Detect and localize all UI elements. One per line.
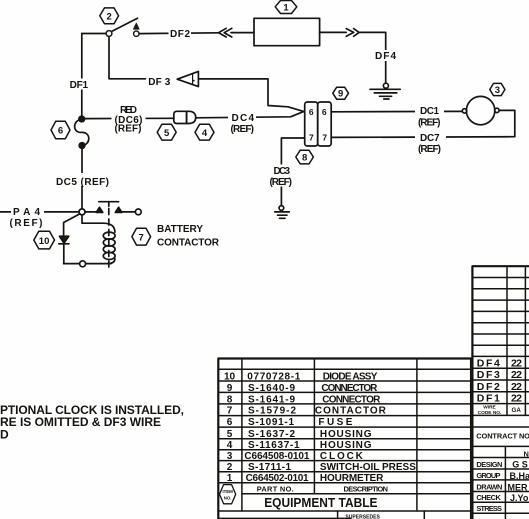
- item hexagon 6: [51, 121, 70, 139]
- item hexagon 10: [34, 231, 55, 249]
- svg-text:DF2: DF2: [170, 29, 190, 40]
- svg-text:7: 7: [139, 232, 144, 243]
- svg-text:10: 10: [224, 372, 236, 383]
- svg-text:DF2: DF2: [477, 381, 500, 393]
- ground under DC3: [279, 206, 284, 211]
- wire chevron to clock box: [231, 32, 254, 34]
- equipment table row lines: [218, 368, 470, 370]
- svg-text:DF3: DF3: [477, 369, 500, 381]
- wire code table columns: [507, 266, 525, 415]
- svg-text:7: 7: [227, 406, 233, 417]
- svg-text:S-1637-2: S-1637-2: [248, 429, 295, 440]
- svg-text:3: 3: [227, 451, 233, 462]
- wire DC3 from pin 7 to ground: [281, 138, 304, 206]
- svg-text:GA: GA: [512, 407, 522, 414]
- svg-text:CONNECTOR: CONNECTOR: [321, 383, 378, 394]
- coil branch wire from junction: [82, 215, 115, 232]
- svg-text:D: D: [0, 427, 9, 441]
- wire RED/DC6 from fuse to holder: [84, 117, 174, 119]
- svg-text:RE IS OMITTED & DF3 WIRE: RE IS OMITTED & DF3 WIRE: [0, 415, 161, 429]
- svg-text:DC5 (REF): DC5 (REF): [56, 177, 109, 188]
- equipment table column lines: [241, 359, 243, 512]
- svg-text:NO.: NO.: [224, 495, 232, 500]
- svg-text:7: 7: [309, 132, 314, 142]
- svg-text:7: 7: [322, 132, 327, 142]
- svg-text:DF1: DF1: [477, 392, 500, 404]
- armature dashed linkage: [108, 209, 110, 271]
- chevron arrow out of clock (double, pointing right): [346, 29, 353, 37]
- svg-text:WIRE: WIRE: [483, 405, 496, 411]
- diode branch diagonal (item 10): [64, 214, 80, 236]
- junction node (open): [79, 209, 85, 215]
- bottom return wire: [64, 263, 111, 265]
- contactor coil loops: [103, 232, 115, 239]
- svg-text:NA: NA: [524, 449, 529, 458]
- item hexagon 4: [195, 124, 214, 140]
- item hexagon 7: [132, 228, 151, 245]
- wire DC4 to connector pin 6: [196, 112, 304, 118]
- fuse holder (items 5,4): [174, 111, 187, 123]
- svg-text:CLOCK: CLOCK: [320, 451, 364, 462]
- svg-text:4: 4: [227, 440, 233, 451]
- switch S (item 2) pivot-to-corner wire: [82, 33, 107, 35]
- diode to bottom wire: [63, 244, 65, 264]
- fuse F (item 6) with junction dots: [79, 116, 85, 122]
- svg-text:ITEM: ITEM: [222, 489, 233, 494]
- title block rows: [472, 426, 529, 428]
- svg-text:C664508-0101: C664508-0101: [244, 451, 309, 462]
- svg-text:S-1640-9: S-1640-9: [248, 383, 295, 394]
- motor M (item 3): [466, 96, 494, 124]
- svg-text:6: 6: [58, 126, 63, 137]
- svg-text:DC3: DC3: [274, 166, 291, 177]
- supersedes strip verticals: [338, 511, 425, 519]
- wire DC1 from connector to motor: [331, 110, 462, 112]
- svg-text:2: 2: [227, 462, 233, 473]
- contactor contact triangles: [96, 207, 103, 212]
- triangle arrow inner dot: [193, 80, 195, 82]
- svg-text:SWITCH-OIL PRESS: SWITCH-OIL PRESS: [320, 462, 416, 473]
- svg-text:DESCRIPTION: DESCRIPTION: [344, 484, 389, 493]
- svg-text:22: 22: [511, 357, 522, 369]
- ground under DF4: [383, 83, 388, 88]
- svg-text:C664502-0101: C664502-0101: [246, 473, 309, 484]
- wire DC7 from connector to motor right side: [331, 110, 515, 137]
- svg-text:6: 6: [309, 107, 314, 117]
- bottom node (open): [80, 261, 86, 267]
- wire code table rows: [472, 277, 529, 279]
- svg-text:G S: G S: [512, 460, 528, 470]
- svg-text:HOURMETER: HOURMETER: [320, 473, 384, 484]
- svg-text:5: 5: [164, 128, 170, 139]
- arrow symbol on DF3 wire: [177, 71, 198, 86]
- svg-text:8: 8: [302, 153, 307, 164]
- contactor terminal circle: [135, 209, 141, 215]
- svg-text:S-1579-2: S-1579-2: [248, 406, 296, 417]
- contactor armature T bar: [99, 202, 119, 207]
- svg-text:4: 4: [202, 128, 208, 139]
- coil bottom lead: [108, 259, 115, 264]
- wire PA4 into junction: [0, 211, 79, 213]
- svg-text:PART NO.: PART NO.: [257, 484, 294, 493]
- wire DF1 vertical: [81, 34, 83, 117]
- svg-text:(REF): (REF): [418, 117, 441, 128]
- item hexagon 9: [333, 87, 349, 99]
- item hexagon 8: [296, 150, 314, 164]
- svg-text:STRESS: STRESS: [476, 504, 502, 513]
- svg-text:CONTRACT NO-: CONTRACT NO-: [476, 432, 529, 441]
- svg-text:SUPERSEDES: SUPERSEDES: [345, 515, 380, 519]
- svg-text:DF1: DF1: [70, 80, 89, 91]
- switch contact node: [134, 31, 139, 36]
- svg-text:(REF): (REF): [115, 124, 142, 135]
- svg-text:1: 1: [227, 473, 233, 484]
- svg-text:CHECK: CHECK: [476, 493, 501, 502]
- svg-text:S-1711-1: S-1711-1: [248, 462, 291, 473]
- equipment table item numbers: [224, 372, 236, 484]
- svg-text:5: 5: [227, 429, 233, 440]
- wire DF3 to connector pin 6: [199, 79, 304, 112]
- svg-text:(REF): (REF): [270, 177, 293, 188]
- svg-text:DC4: DC4: [232, 113, 255, 124]
- wire DF2 from contact to chevron: [139, 32, 219, 35]
- title block name column: [504, 446, 506, 519]
- svg-text:DESIGN: DESIGN: [476, 460, 502, 469]
- wire clock box to right chevron: [320, 31, 347, 33]
- svg-text:CODE NO.: CODE NO.: [478, 410, 502, 416]
- contactor fixed contact wires: [85, 211, 135, 213]
- chevron arrow into clock (double, pointing left): [219, 28, 227, 37]
- item hexagon 5: [157, 124, 176, 140]
- svg-text:9: 9: [227, 383, 233, 394]
- svg-text:22: 22: [511, 392, 522, 404]
- svg-text:(REF): (REF): [10, 218, 43, 229]
- svg-text:DC7: DC7: [420, 133, 440, 144]
- svg-text:6: 6: [322, 107, 327, 117]
- svg-text:S-11637-1: S-11637-1: [248, 440, 300, 451]
- svg-text:22: 22: [511, 381, 522, 393]
- item hexagon 2: [100, 8, 119, 24]
- svg-text:3: 3: [495, 85, 500, 96]
- bottom partial row line: [218, 517, 351, 519]
- wire DF3 branch from switch down then right: [109, 36, 146, 78]
- svg-text:(REF): (REF): [231, 124, 255, 135]
- svg-text:B.Ha: B.Ha: [510, 471, 529, 481]
- svg-text:S-1641-9: S-1641-9: [248, 395, 295, 406]
- svg-text:(REF): (REF): [418, 144, 441, 155]
- item no hexagon in equipment table: [220, 485, 236, 504]
- switch blade: [111, 18, 138, 32]
- item hexagon 1: [275, 1, 297, 14]
- svg-text:BATTERY: BATTERY: [157, 224, 203, 235]
- svg-text:HOUSING: HOUSING: [320, 440, 372, 451]
- svg-text:DC1: DC1: [420, 106, 439, 117]
- switch contact arrow: [133, 23, 139, 29]
- svg-text:DF4: DF4: [375, 51, 396, 62]
- wire DF4 to ground: [359, 32, 386, 83]
- svg-text:10: 10: [39, 236, 50, 247]
- svg-text:DF 3: DF 3: [148, 77, 170, 88]
- svg-text:9: 9: [338, 89, 343, 100]
- svg-text:CONTACTOR: CONTACTOR: [315, 406, 387, 417]
- svg-text:GROUP: GROUP: [476, 471, 500, 480]
- svg-text:HOUSING: HOUSING: [320, 429, 372, 440]
- svg-text:1: 1: [283, 3, 289, 14]
- svg-text:8: 8: [227, 395, 233, 406]
- label whiteouts over wires: [169, 28, 192, 39]
- svg-text:0770728-1: 0770728-1: [247, 372, 300, 383]
- svg-text:PA4: PA4: [13, 207, 40, 218]
- diode CR (item 10): [59, 236, 68, 243]
- clock box (item 1): [254, 18, 320, 45]
- svg-text:DRAWN: DRAWN: [476, 482, 502, 491]
- connector housings (items 9,8): [305, 102, 318, 146]
- svg-text:22: 22: [511, 369, 522, 381]
- svg-text:S-1091-1: S-1091-1: [248, 417, 294, 428]
- svg-text:EQUIPMENT TABLE: EQUIPMENT TABLE: [264, 495, 378, 510]
- equipment table outer border: [218, 359, 470, 519]
- svg-text:CONTACTOR: CONTACTOR: [157, 238, 220, 249]
- svg-text:DF4: DF4: [477, 357, 500, 369]
- svg-text:J.Yo: J.Yo: [510, 493, 529, 503]
- svg-text:6: 6: [227, 417, 233, 428]
- svg-text:CONNECTOR: CONNECTOR: [322, 395, 381, 406]
- item hexagon 3: [490, 83, 505, 95]
- svg-text:MER: MER: [508, 482, 529, 492]
- wire code no header: [478, 405, 502, 417]
- svg-text:DIODE ASSY: DIODE ASSY: [323, 372, 378, 383]
- switch pivot node: [106, 31, 112, 37]
- wire code table outer border: [472, 266, 529, 519]
- wire DC5 from fuse to junction: [81, 148, 83, 209]
- svg-text:2: 2: [107, 12, 112, 23]
